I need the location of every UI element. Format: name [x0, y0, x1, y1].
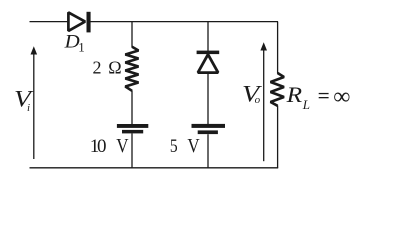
- svg-text:Ω: Ω: [108, 58, 121, 78]
- diode D2 triangle: [198, 54, 218, 72]
- label equals sign: [319, 93, 329, 98]
- arrow Vi line: [33, 54, 35, 160]
- wire branch diode upper: [207, 22, 209, 51]
- label Vo: [242, 81, 263, 107]
- wire bottom: [30, 167, 279, 169]
- arrow Vo head: [260, 42, 267, 50]
- label 5 V: [170, 135, 200, 158]
- wire right vertical lower: [277, 106, 279, 168]
- wire branch diode middle: [207, 73, 209, 125]
- battery 10V negative plate: [122, 130, 143, 134]
- diode D2 cathode bar: [197, 51, 220, 55]
- diode D1 triangle: [68, 12, 85, 31]
- svg-text:2: 2: [93, 58, 102, 78]
- svg-text:L: L: [302, 97, 310, 112]
- svg-text:V: V: [187, 135, 200, 158]
- svg-text:i: i: [27, 102, 30, 114]
- svg-text:V: V: [116, 135, 129, 158]
- wire branch 2ohm upper: [131, 22, 133, 48]
- wire top left segment: [30, 21, 70, 23]
- wire branch diode lower: [207, 134, 209, 168]
- svg-text:∞: ∞: [333, 84, 350, 110]
- battery 5V negative plate: [198, 130, 218, 134]
- wire right vertical upper: [277, 22, 279, 74]
- resistor 2 ohm zigzag: [125, 47, 138, 91]
- label RL: [286, 83, 311, 112]
- svg-text:5: 5: [170, 136, 178, 157]
- label infinity: [333, 84, 350, 110]
- wire branch 2ohm lower: [131, 133, 133, 167]
- battery 5V positive plate: [192, 124, 226, 128]
- diode D1 cathode bar: [87, 12, 91, 33]
- label 2 ohm: [93, 58, 122, 78]
- svg-text:R: R: [286, 83, 303, 107]
- svg-text:o: o: [255, 94, 261, 106]
- battery 10V positive plate: [117, 124, 148, 128]
- label D1: [64, 31, 85, 54]
- svg-text:V: V: [14, 87, 34, 112]
- arrow Vo line: [263, 50, 265, 161]
- svg-text:1: 1: [78, 39, 85, 54]
- resistor RL zigzag: [271, 73, 285, 106]
- label Vi: [14, 87, 34, 114]
- label 10 V: [90, 135, 129, 158]
- svg-text:0: 0: [97, 136, 107, 157]
- arrow Vi head: [31, 46, 38, 54]
- wire top middle segment: [91, 21, 279, 23]
- wire branch 2ohm middle: [131, 91, 133, 125]
